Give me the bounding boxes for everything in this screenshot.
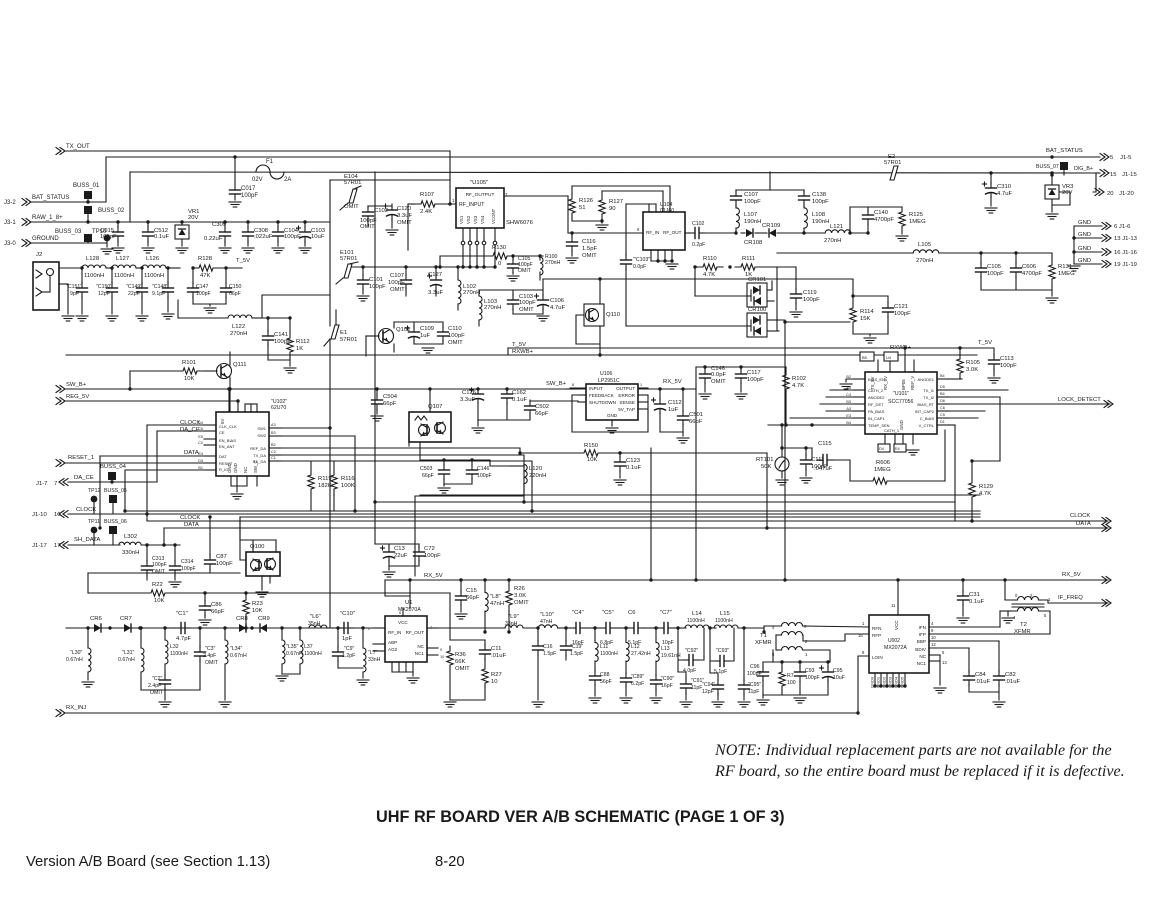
inductor L14 bbox=[685, 625, 709, 628]
svg-text:C113: C113 bbox=[1000, 356, 1014, 362]
svg-text:1pF: 1pF bbox=[342, 636, 353, 642]
svg-text:DATA: DATA bbox=[184, 450, 199, 456]
svg-text:C310: C310 bbox=[997, 184, 1012, 190]
svg-text:R112: R112 bbox=[296, 339, 310, 345]
node REG_5V bbox=[56, 398, 65, 405]
svg-text:R606: R606 bbox=[876, 460, 891, 466]
svg-text:E5: E5 bbox=[198, 435, 203, 439]
svg-text:1.5pF: 1.5pF bbox=[543, 651, 556, 657]
svg-text:D1: D1 bbox=[940, 420, 945, 424]
svg-text:A3: A3 bbox=[271, 423, 276, 427]
capacitor C106 bbox=[542, 279, 544, 296]
svg-text:C110: C110 bbox=[448, 326, 462, 332]
svg-text:5V: 5V bbox=[220, 419, 225, 424]
svg-text:C95: C95 bbox=[833, 668, 843, 674]
wire CR output bbox=[771, 281, 773, 290]
svg-text:"L10": "L10" bbox=[540, 612, 554, 618]
svg-text:C109: C109 bbox=[420, 326, 434, 332]
svg-text:VS3: VS3 bbox=[473, 215, 478, 224]
svg-text:R126: R126 bbox=[579, 198, 594, 204]
svg-text:J3-0: J3-0 bbox=[4, 241, 16, 247]
svg-text:57R01: 57R01 bbox=[340, 337, 357, 343]
svg-text:RF_INPUT: RF_INPUT bbox=[459, 202, 485, 208]
node IF_FREQ bbox=[1048, 602, 1108, 604]
svg-text:C2: C2 bbox=[198, 441, 203, 445]
diode CR108 bbox=[746, 229, 753, 237]
buss BUSS_02 bbox=[84, 206, 92, 214]
capacitor C101 bbox=[362, 267, 364, 276]
svg-text:0.67nH: 0.67nH bbox=[230, 653, 247, 659]
wire U105 out bbox=[504, 195, 568, 197]
svg-text:1MEG: 1MEG bbox=[874, 467, 891, 473]
capacitor C310 bbox=[990, 173, 992, 184]
regulator U106 bbox=[586, 384, 638, 420]
gnd pins J1 bbox=[1074, 225, 1102, 227]
svg-text:BIAS_RT: BIAS_RT bbox=[917, 402, 934, 407]
svg-text:DA_CE: DA_CE bbox=[180, 427, 200, 433]
svg-text:L126: L126 bbox=[146, 256, 160, 262]
svg-text:1100nH: 1100nH bbox=[304, 651, 322, 657]
svg-text:1uF: 1uF bbox=[420, 333, 431, 339]
wire U106 fb loop bbox=[572, 395, 648, 432]
svg-text:RFN: RFN bbox=[872, 626, 881, 631]
svg-text:C87: C87 bbox=[216, 554, 227, 560]
svg-text:L12: L12 bbox=[631, 644, 640, 650]
inductor L102 bbox=[458, 280, 461, 304]
capacitor C105a bbox=[512, 256, 514, 260]
svg-text:R131: R131 bbox=[1058, 264, 1072, 270]
capacitor C015 bbox=[116, 220, 119, 223]
svg-text:56pF: 56pF bbox=[600, 679, 612, 685]
node TX_OUT bbox=[56, 148, 65, 155]
inductor L128 bbox=[82, 265, 106, 268]
svg-text:C82: C82 bbox=[1005, 672, 1016, 678]
wire U101 bias gnd bbox=[846, 379, 853, 382]
svg-text:270nH: 270nH bbox=[463, 290, 480, 296]
svg-text:C501: C501 bbox=[689, 412, 703, 418]
svg-text:57R01: 57R01 bbox=[340, 256, 357, 262]
ic U102 bbox=[216, 412, 269, 476]
svg-text:"C5": "C5" bbox=[602, 610, 614, 616]
svg-text:DATA: DATA bbox=[1076, 521, 1091, 527]
svg-text:F1: F1 bbox=[266, 159, 274, 165]
resistor R114 bbox=[850, 303, 856, 327]
svg-text:66pF: 66pF bbox=[383, 401, 397, 407]
wire U1 supply bbox=[409, 596, 411, 608]
capacitor C146b bbox=[704, 367, 706, 370]
wire T2 primary loop bbox=[1008, 611, 1017, 616]
svg-text:0.1uF: 0.1uF bbox=[969, 599, 984, 605]
transistor Q111 bbox=[217, 364, 232, 379]
svg-text:L128: L128 bbox=[86, 256, 100, 262]
svg-text:CR7: CR7 bbox=[120, 616, 132, 622]
wire frame top bbox=[330, 179, 450, 181]
inductor L105 bbox=[913, 250, 939, 253]
svg-text:B4: B4 bbox=[940, 374, 945, 378]
svg-text:C112: C112 bbox=[668, 400, 682, 406]
svg-text:C127: C127 bbox=[428, 272, 442, 278]
svg-text:0.1uF: 0.1uF bbox=[154, 234, 169, 240]
svg-text:TX_I2: TX_I2 bbox=[923, 395, 934, 400]
svg-text:8-20: 8-20 bbox=[435, 854, 465, 870]
svg-text:NC: NC bbox=[417, 644, 424, 649]
wire R126 R127 bottoms bbox=[572, 220, 602, 222]
svg-text:C116: C116 bbox=[582, 239, 596, 245]
svg-text:C31: C31 bbox=[969, 592, 980, 598]
svg-text:C102: C102 bbox=[692, 221, 705, 227]
capacitor C113 bbox=[993, 348, 995, 356]
svg-text:9pF: 9pF bbox=[70, 291, 79, 297]
capacitor C104 bbox=[276, 220, 279, 223]
wire vertical x785 bbox=[784, 322, 786, 580]
svg-text:J1-5: J1-5 bbox=[1120, 155, 1132, 161]
wire U104 in bbox=[568, 232, 643, 234]
inductor L11 bbox=[594, 628, 596, 642]
svg-text:4.7uF: 4.7uF bbox=[550, 305, 565, 311]
svg-text:VS1: VS1 bbox=[459, 215, 464, 224]
capacitor C308 bbox=[246, 220, 249, 223]
svg-text:"C94": "C94" bbox=[702, 682, 715, 688]
amplifier U1 bbox=[385, 616, 427, 662]
svg-text:.01uF: .01uF bbox=[491, 653, 506, 659]
svg-text:L302: L302 bbox=[124, 534, 137, 540]
capacitor C147 bbox=[191, 266, 194, 269]
svg-text:CR100: CR100 bbox=[748, 307, 767, 313]
wire R111 vertical bbox=[776, 267, 778, 331]
svg-text:1uF: 1uF bbox=[668, 407, 679, 413]
svg-text:47nH: 47nH bbox=[490, 601, 504, 607]
svg-text:20: 20 bbox=[1107, 191, 1114, 197]
svg-text:CR9: CR9 bbox=[258, 616, 270, 622]
svg-text:ANODE1: ANODE1 bbox=[918, 377, 935, 382]
svg-text:BAT_STATUS: BAT_STATUS bbox=[1046, 148, 1083, 154]
svg-text:IFP: IFP bbox=[919, 632, 926, 637]
svg-text:100pF: 100pF bbox=[196, 291, 211, 297]
wire IFN to T2 region bbox=[999, 611, 1001, 627]
svg-text:J3-2: J3-2 bbox=[4, 200, 16, 206]
capacitor C105b bbox=[980, 253, 982, 264]
svg-text:C107: C107 bbox=[390, 273, 404, 279]
svg-text:GND0: GND0 bbox=[870, 676, 875, 688]
pins U104 top bbox=[648, 204, 650, 212]
svg-text:11pF: 11pF bbox=[691, 685, 702, 691]
svg-text:100K: 100K bbox=[341, 483, 355, 489]
svg-text:"L8": "L8" bbox=[490, 594, 501, 600]
inductor L32 bbox=[164, 628, 166, 640]
wire Q107 verticals bbox=[429, 389, 431, 412]
wire L122 right bbox=[262, 295, 330, 318]
resistor R126 bbox=[569, 194, 575, 218]
svg-text:13: 13 bbox=[942, 660, 947, 665]
svg-text:C13: C13 bbox=[394, 546, 406, 552]
svg-text:V_CTRL: V_CTRL bbox=[919, 423, 935, 428]
capacitor C84 bbox=[968, 648, 970, 672]
wire long bus group mid bbox=[375, 501, 955, 503]
svg-text:66pF: 66pF bbox=[535, 411, 549, 417]
node RX_INJ bbox=[56, 710, 65, 717]
svg-text:IFN: IFN bbox=[919, 625, 926, 630]
svg-text:"C93": "C93" bbox=[716, 648, 729, 654]
svg-text:C_BIAS: C_BIAS bbox=[920, 416, 935, 421]
svg-text:OMIT: OMIT bbox=[455, 666, 470, 672]
pins U101 right bbox=[937, 378, 949, 380]
svg-text:L105: L105 bbox=[918, 242, 932, 248]
capacitor C93b bbox=[714, 660, 720, 662]
svg-text:CATH_1: CATH_1 bbox=[884, 428, 900, 433]
resistor R110 bbox=[697, 264, 723, 270]
svg-text:D3: D3 bbox=[198, 459, 203, 463]
svg-text:VS2: VS2 bbox=[466, 215, 471, 224]
svg-text:10: 10 bbox=[491, 679, 498, 685]
svg-text:4.7K: 4.7K bbox=[979, 491, 991, 497]
svg-text:RF board, so the entire board: RF board, so the entire board must be re… bbox=[714, 763, 1125, 780]
wire mixer line bbox=[66, 627, 385, 629]
wire U102 left wires bbox=[147, 424, 204, 426]
wire U106 in bbox=[566, 388, 578, 390]
svg-text:RX_INJ: RX_INJ bbox=[66, 705, 86, 711]
svg-text:.022uF: .022uF bbox=[254, 234, 273, 240]
resistor R22 bbox=[144, 590, 172, 596]
resistor R125 bbox=[899, 207, 905, 231]
diode CR6 bbox=[94, 624, 101, 632]
svg-text:1: 1 bbox=[452, 198, 455, 203]
svg-text:BUSS_01: BUSS_01 bbox=[73, 183, 100, 189]
capacitor C87 bbox=[209, 517, 211, 556]
svg-text:L13: L13 bbox=[661, 646, 670, 652]
capacitor C140 bbox=[867, 207, 869, 211]
svg-text:"C2": "C2" bbox=[152, 676, 162, 682]
svg-text:GND: GND bbox=[1078, 246, 1091, 252]
svg-text:RESET_1: RESET_1 bbox=[68, 455, 94, 461]
capacitor C96 bbox=[762, 662, 764, 668]
svg-text:SH_DATA: SH_DATA bbox=[74, 537, 100, 543]
inductor L12 bbox=[625, 628, 627, 642]
svg-text:C115: C115 bbox=[818, 441, 832, 447]
svg-text:RX_5V: RX_5V bbox=[1062, 572, 1081, 578]
svg-text:"L30": "L30" bbox=[70, 650, 82, 656]
capacitor C103b bbox=[512, 290, 514, 296]
wire L31 C3 rail bbox=[141, 689, 200, 691]
wire Q101 row bbox=[394, 321, 443, 323]
op-amp U105 bbox=[456, 188, 504, 228]
svg-text:6: 6 bbox=[399, 611, 401, 615]
svg-text:C93: C93 bbox=[805, 668, 815, 674]
svg-text:C84: C84 bbox=[975, 672, 987, 678]
svg-text:A3: A3 bbox=[846, 407, 851, 411]
svg-text:C96: C96 bbox=[750, 664, 760, 670]
inductor L126 bbox=[142, 265, 166, 268]
svg-text:L108: L108 bbox=[812, 212, 826, 218]
svg-text:8: 8 bbox=[572, 383, 574, 387]
svg-text:OMIT: OMIT bbox=[150, 690, 164, 696]
resistor R131 bbox=[1049, 257, 1055, 287]
capacitor C502 bbox=[529, 401, 531, 402]
svg-text:12pF: 12pF bbox=[98, 291, 110, 297]
capacitor C88 bbox=[594, 668, 596, 672]
svg-text:1100nH: 1100nH bbox=[715, 618, 733, 624]
capacitor C112 bbox=[659, 389, 661, 400]
svg-text:0.0pF: 0.0pF bbox=[633, 264, 646, 270]
svg-text:R116: R116 bbox=[341, 476, 355, 482]
svg-text:E4: E4 bbox=[198, 452, 203, 456]
capacitor C90 bbox=[655, 670, 657, 676]
svg-text:OMIT: OMIT bbox=[519, 307, 534, 313]
svg-text:3.0K: 3.0K bbox=[966, 367, 978, 373]
pins U106 bbox=[570, 387, 586, 389]
capacitor C141 bbox=[267, 318, 269, 328]
svg-text:T2: T2 bbox=[1020, 622, 1027, 628]
wire L120 down bbox=[415, 496, 524, 576]
svg-text:"C1": "C1" bbox=[176, 611, 188, 617]
svg-text:T_5V: T_5V bbox=[512, 342, 526, 348]
svg-text:1100nH: 1100nH bbox=[114, 273, 134, 279]
resistor R105 bbox=[957, 354, 963, 378]
wire RAW bus bbox=[30, 221, 330, 223]
inductor L127 bbox=[112, 265, 136, 268]
svg-text:1MEG: 1MEG bbox=[1058, 271, 1075, 277]
svg-text:U002: U002 bbox=[888, 638, 900, 644]
svg-text:47K: 47K bbox=[200, 273, 211, 279]
svg-text:C017: C017 bbox=[241, 186, 256, 192]
wire from F1 line bbox=[130, 172, 1096, 173]
svg-text:PA_BIAS: PA_BIAS bbox=[868, 409, 885, 414]
svg-text:1: 1 bbox=[640, 383, 642, 387]
svg-text:270nH: 270nH bbox=[484, 305, 501, 311]
svg-text:C102: C102 bbox=[374, 208, 388, 214]
svg-text:B1: B1 bbox=[198, 466, 203, 470]
svg-text:RF_OUT: RF_OUT bbox=[663, 230, 682, 235]
svg-text:SW_C: SW_C bbox=[253, 460, 258, 473]
resistor R7 bbox=[779, 668, 785, 690]
capacitor C512 bbox=[146, 220, 149, 223]
svg-text:C502: C502 bbox=[535, 404, 549, 410]
svg-text:C162: C162 bbox=[512, 390, 526, 396]
svg-text:"L34": "L34" bbox=[230, 646, 242, 652]
svg-text:CLOCK: CLOCK bbox=[180, 515, 200, 521]
svg-text:11pF: 11pF bbox=[748, 689, 759, 695]
svg-text:SW_B+: SW_B+ bbox=[546, 381, 567, 387]
wire U101 left nets bbox=[830, 389, 853, 391]
svg-text:RF_DET: RF_DET bbox=[868, 402, 884, 407]
junction bat bbox=[1050, 155, 1053, 158]
svg-text:Q111: Q111 bbox=[233, 362, 247, 368]
svg-text:33nH: 33nH bbox=[505, 621, 518, 627]
transistor pair Q100 bbox=[246, 552, 280, 576]
svg-text:DATA: DATA bbox=[184, 522, 199, 528]
capacitor C501 bbox=[682, 389, 684, 412]
svg-text:100pF: 100pF bbox=[803, 297, 820, 303]
svg-text:L37: L37 bbox=[304, 644, 313, 650]
svg-text:1.5pF: 1.5pF bbox=[570, 651, 583, 657]
svg-text:BUSS_04: BUSS_04 bbox=[100, 464, 127, 470]
svg-text:GND: GND bbox=[607, 413, 618, 418]
svg-text:0.2pF: 0.2pF bbox=[692, 242, 705, 248]
wire CR101 inputs bbox=[694, 267, 696, 296]
svg-text:OUTPUT: OUTPUT bbox=[616, 386, 635, 391]
svg-text:270nH: 270nH bbox=[545, 260, 561, 266]
capacitor C2 bbox=[164, 672, 166, 676]
wire U105 vs pins bbox=[462, 238, 464, 267]
svg-text:66pF: 66pF bbox=[689, 419, 703, 425]
svg-text:REF_V: REF_V bbox=[910, 376, 915, 390]
svg-text:16 J1-16: 16 J1-16 bbox=[1114, 250, 1138, 256]
inductor L103 bbox=[479, 296, 482, 320]
svg-text:J2: J2 bbox=[36, 252, 42, 258]
svg-text:2.4K: 2.4K bbox=[420, 209, 432, 215]
transistor Q101 bbox=[379, 329, 394, 344]
pins U104 bottom bbox=[650, 250, 652, 261]
svg-text:100pF: 100pF bbox=[284, 234, 301, 240]
svg-text:"C90": "C90" bbox=[661, 676, 674, 682]
svg-text:SW2: SW2 bbox=[257, 433, 266, 438]
svg-text:27.42nH: 27.42nH bbox=[631, 651, 651, 657]
svg-text:BP05: BP05 bbox=[901, 379, 906, 390]
wire U102 right wires bbox=[269, 427, 330, 429]
svg-text:OMIT: OMIT bbox=[448, 340, 463, 346]
ground J2 bbox=[59, 283, 68, 285]
svg-text:CLOCK: CLOCK bbox=[1070, 513, 1090, 519]
svg-text:L121: L121 bbox=[830, 224, 843, 230]
svg-text:2.4pF: 2.4pF bbox=[148, 683, 161, 689]
svg-text:C146: C146 bbox=[477, 466, 490, 472]
svg-text:GND: GND bbox=[227, 463, 232, 473]
svg-text:C1: C1 bbox=[271, 456, 276, 460]
svg-text:E1: E1 bbox=[340, 330, 347, 336]
svg-text:GROUND: GROUND bbox=[32, 236, 59, 242]
capacitor C126 bbox=[477, 389, 479, 390]
svg-text:SHW6076: SHW6076 bbox=[506, 220, 534, 226]
capacitor C94b bbox=[717, 677, 719, 681]
resistor R130 bbox=[486, 253, 514, 259]
capacitor C150 bbox=[110, 266, 113, 269]
mixer U002 bbox=[869, 615, 929, 673]
svg-text:BUSS_05: BUSS_05 bbox=[104, 488, 127, 494]
svg-text:GND: GND bbox=[1078, 258, 1091, 264]
inductor L37 bbox=[299, 628, 301, 640]
svg-text:"L6": "L6" bbox=[310, 614, 321, 620]
zener VR1 bbox=[181, 222, 183, 224]
svg-text:190nH: 190nH bbox=[744, 219, 761, 225]
svg-text:100pF: 100pF bbox=[448, 333, 465, 339]
svg-text:10: 10 bbox=[440, 655, 444, 659]
wire CLOCK long bbox=[147, 520, 1108, 522]
inductor L15 bbox=[714, 625, 738, 628]
svg-text:4700pF: 4700pF bbox=[874, 217, 894, 223]
wire CR9 right bbox=[272, 627, 310, 629]
svg-text:100pF: 100pF bbox=[747, 377, 764, 383]
svg-text:BUSS_06: BUSS_06 bbox=[104, 519, 127, 525]
capacitor C127 bbox=[435, 267, 437, 276]
resistor R102 bbox=[783, 369, 789, 395]
svg-text:R150: R150 bbox=[584, 443, 599, 449]
capacitor C148 bbox=[166, 266, 169, 269]
wire long y279 bbox=[543, 278, 853, 280]
svg-text:ABP: ABP bbox=[388, 640, 397, 645]
wire top bus 2 bbox=[106, 156, 1052, 158]
inductor L302 bbox=[119, 542, 141, 545]
svg-text:C123: C123 bbox=[626, 458, 641, 464]
svg-text:GND: GND bbox=[899, 420, 904, 430]
svg-text:100pF: 100pF bbox=[477, 473, 492, 479]
svg-text:66pF: 66pF bbox=[211, 609, 225, 615]
svg-text:BBP: BBP bbox=[917, 639, 926, 644]
wire T1 to U002 RFN bbox=[803, 626, 869, 627]
capacitor C138 bbox=[803, 190, 805, 192]
svg-text:OMIT: OMIT bbox=[514, 600, 529, 606]
capacitor C10 bbox=[338, 627, 344, 629]
svg-text:66K: 66K bbox=[455, 659, 466, 665]
svg-text:02V: 02V bbox=[252, 177, 263, 183]
